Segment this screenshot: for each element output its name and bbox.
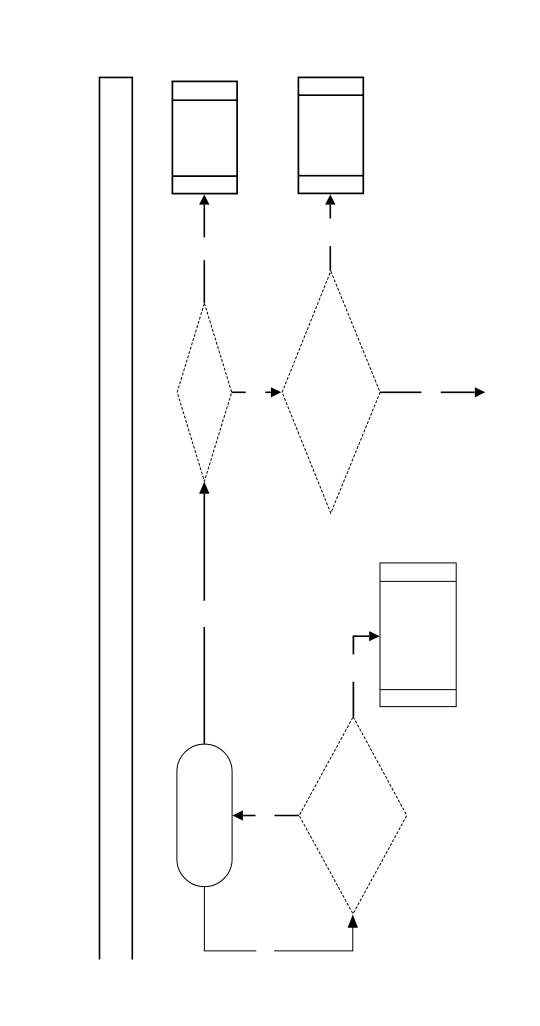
arrowhead into D3 bottom vertex xyxy=(348,915,358,928)
arrowhead into P2 xyxy=(325,195,335,205)
decision D2 (large dashed diamond) xyxy=(282,271,380,513)
wire D2 to right edge (horizontal, label gap) xyxy=(380,391,475,393)
wire D3 to T1 (horizontal, label gap) xyxy=(243,815,299,817)
arrowhead into P3 left edge xyxy=(369,631,379,641)
wire D1 to D2 (horizontal, label gap) xyxy=(232,391,271,393)
arrowhead into P1 xyxy=(199,195,209,205)
process box P3 (middle-right, header/footer bands) xyxy=(380,563,456,707)
lane container (open-bottom tall bar) xyxy=(100,77,133,959)
process box P1 (top-left, header/footer bands) xyxy=(172,81,237,193)
wire T1 to D3 (elbow down, right, up; label gap) xyxy=(204,887,352,951)
arrowhead into T1 right edge xyxy=(233,810,243,820)
wire D2 to P2 (vertical, label gap) xyxy=(329,205,331,271)
arrowhead into D2 left vertex xyxy=(271,387,281,397)
terminator T1 (stadium) xyxy=(177,744,232,887)
process box P2 (top-right, header/footer bands) xyxy=(298,77,363,193)
wire T1 to D1 (long vertical, label gap) xyxy=(203,494,205,744)
wire D1 to P1 (vertical, label gap) xyxy=(203,205,205,303)
wire D3 to P3 (elbow up then right, label gap) xyxy=(353,636,369,717)
arrowhead pointing right (off-page) xyxy=(475,387,486,397)
decision D1 (small dashed diamond) xyxy=(177,303,232,481)
decision D3 (bottom dashed diamond) xyxy=(299,717,407,914)
arrowhead into D1 bottom vertex xyxy=(199,482,209,494)
